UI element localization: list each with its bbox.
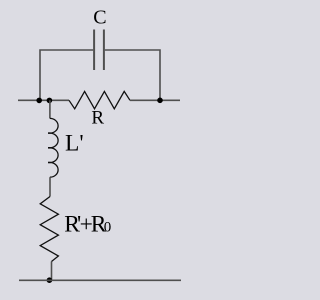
wire: capacitor branch left vertical + top lead [40,50,93,100]
resistor R'+R0 zigzag [40,197,58,262]
node junction dot right [157,98,163,104]
wire: bottom rail [19,279,181,281]
node junction dot bottom [47,277,53,283]
wire: capacitor branch top right lead + right vertical [105,50,160,100]
wire: inductor top lead [49,100,51,118]
capacitor C left plate [93,30,95,71]
label R'+R0 [64,212,111,238]
capacitor C right plate [103,30,105,71]
node junction dot (inductor branch tap) [47,98,53,104]
inductor cusp nubs [48,132,51,134]
inductor L' coil (4 bumps) [50,118,58,177]
svg-text:C: C [93,7,106,29]
node junction dot left (capacitor tap) [36,98,42,104]
wire: main rail right lead [130,99,180,101]
svg-text:0: 0 [104,220,112,236]
wire: resistor bottom lead [51,262,53,281]
svg-text:L': L' [65,130,84,156]
wire: main rail left lead [18,99,69,101]
wire: between inductor and resistor [49,177,51,196]
resistor R zigzag [69,91,130,108]
svg-text:R: R [91,108,104,129]
